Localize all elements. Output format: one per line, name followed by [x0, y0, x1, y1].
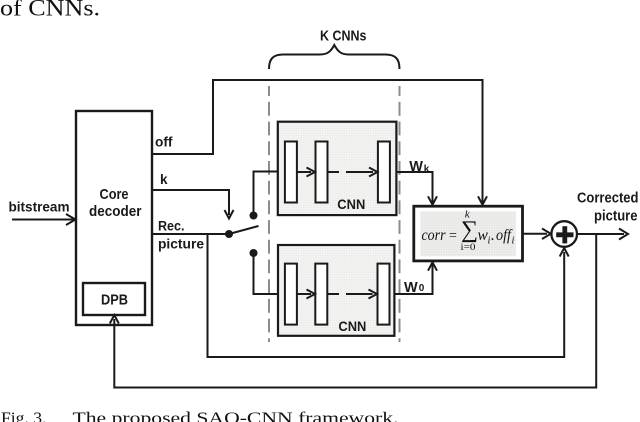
svg-text:K CNNs: K CNNs	[320, 28, 367, 45]
output wire	[577, 233, 624, 235]
svg-text:bitstream: bitstream	[9, 200, 70, 215]
CNN2 layer rect 3	[378, 264, 390, 325]
svg-text:Fig. 3.: Fig. 3.	[1, 409, 47, 422]
arrow k into switch	[225, 210, 234, 219]
CNN1 layer rect 1	[285, 142, 297, 203]
svg-text:Corrected: Corrected	[577, 191, 639, 207]
wire k	[152, 190, 229, 215]
svg-text:i: i	[512, 236, 515, 247]
dashed boundary left	[268, 86, 270, 342]
svg-text:∑: ∑	[461, 217, 478, 243]
arrow off into corr box	[478, 196, 487, 204]
svg-text:of CNNs.: of CNNs.	[0, 0, 100, 22]
svg-text:CNN: CNN	[338, 318, 366, 334]
CNN1 layer rect 2	[316, 142, 328, 203]
CNN2 arrow 1	[297, 293, 311, 295]
switch lower contact node	[250, 249, 258, 257]
svg-text:picture: picture	[594, 209, 638, 225]
CNN2 layer rect 2	[315, 264, 327, 325]
svg-text:DPB: DPB	[101, 292, 128, 309]
svg-text:CNN: CNN	[337, 196, 365, 212]
CNN1 layer rect 3	[378, 142, 390, 203]
wire upper contact to CNN1	[254, 172, 285, 216]
corr formula box	[414, 206, 523, 261]
switch lever	[229, 226, 259, 234]
CNN1 arrow 1	[297, 171, 311, 173]
svg-text:picture: picture	[158, 237, 204, 252]
switch pivot node	[225, 230, 233, 238]
wire corr to adder	[523, 233, 548, 235]
CNN2 layer rect 1	[285, 264, 297, 325]
wire off	[152, 80, 483, 204]
svg-text:Core: Core	[100, 186, 129, 203]
wire W_0 to corr box	[394, 264, 432, 295]
feedback wire rec picture to adder	[208, 234, 565, 357]
CNN2 dashed arrow 2	[327, 293, 339, 295]
dashed boundary right	[399, 86, 401, 342]
corr formula text	[422, 208, 515, 253]
svg-text:=: =	[449, 229, 457, 244]
switch upper contact node	[250, 212, 258, 220]
svg-text:off: off	[155, 135, 173, 150]
feedback wire output to DPB	[114, 234, 596, 388]
core decoder box	[76, 111, 152, 325]
wire lower contact to CNN2	[254, 253, 285, 294]
svg-text:corr: corr	[422, 227, 447, 244]
svg-text:The proposed SAO-CNN framework: The proposed SAO-CNN framework.	[73, 409, 399, 422]
CNN block 1 box	[278, 122, 397, 215]
svg-text:i=0: i=0	[461, 243, 476, 253]
svg-text:k: k	[424, 164, 430, 175]
adder	[551, 221, 577, 247]
wire rec picture	[152, 233, 229, 235]
svg-text:decoder: decoder	[89, 203, 142, 220]
svg-text:0: 0	[419, 283, 425, 294]
svg-text:Rec.: Rec.	[158, 219, 185, 234]
CNN block 2 box	[278, 245, 394, 336]
bitstream arrow wire	[12, 219, 74, 221]
wire W_k to corr box	[396, 172, 432, 204]
DPB box	[83, 283, 145, 315]
svg-text:.: .	[491, 227, 495, 244]
brace over CNN group	[269, 45, 400, 69]
svg-text:k: k	[160, 172, 168, 187]
CNN1 dashed arrow 2	[328, 171, 340, 173]
